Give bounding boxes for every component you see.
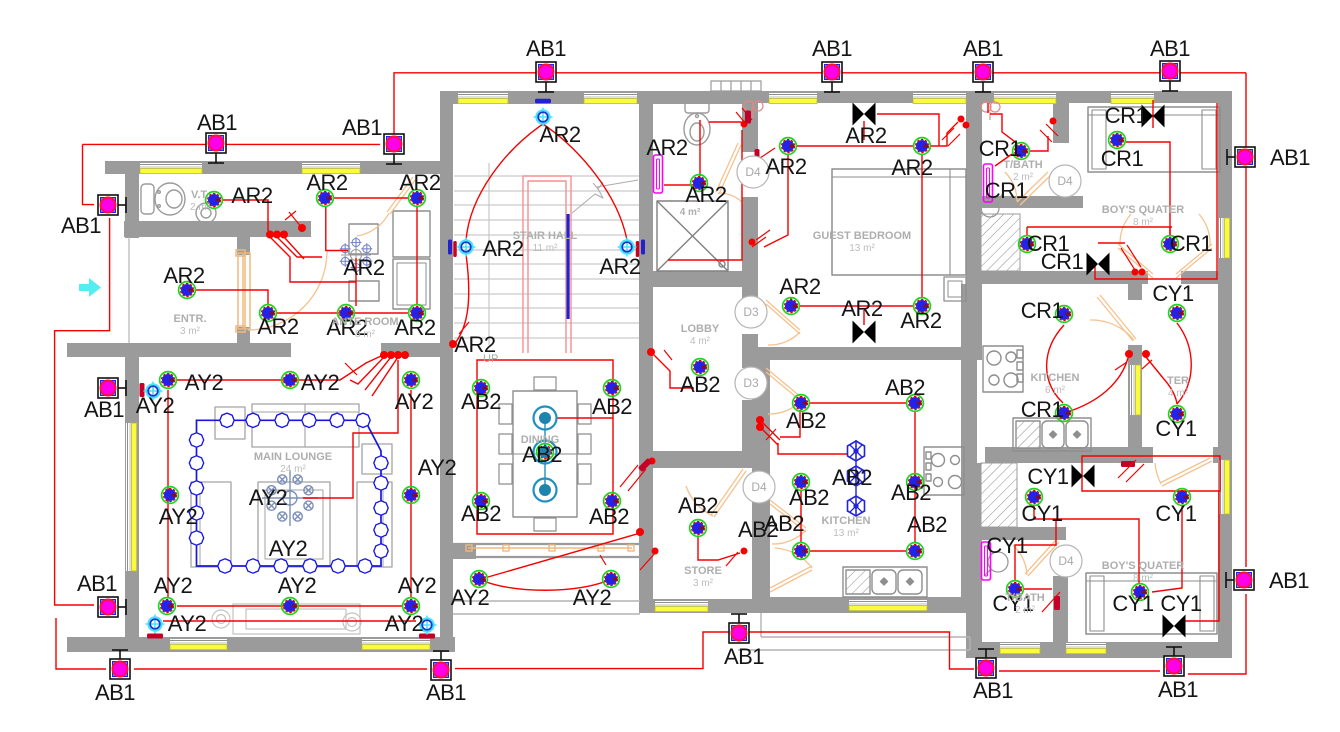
light AR2 V.T. xyxy=(206,192,223,209)
wire bath loop xyxy=(668,130,742,260)
svg-text:AB2: AB2 xyxy=(907,512,947,537)
svg-text:AR2: AR2 xyxy=(841,296,883,321)
bottom bed pillow right xyxy=(1200,576,1214,631)
door swing lobby lower xyxy=(768,400,802,414)
svg-text:AY2: AY2 xyxy=(398,573,437,598)
light AY2 porch east xyxy=(603,571,620,588)
door tag D4 T/BATH top xyxy=(1049,165,1081,197)
wire kitchen fan column xyxy=(855,440,857,516)
wire south chain east2 xyxy=(999,670,1160,672)
wire boys mid right stub xyxy=(1169,227,1171,236)
wall left of store xyxy=(639,449,653,613)
svg-text:6 m²: 6 m² xyxy=(1045,385,1066,396)
wire top AB1 chain xyxy=(394,73,1246,131)
light AY2 lounge NW xyxy=(160,372,177,389)
bottom boys bed xyxy=(1086,573,1217,634)
hatched duct bottom xyxy=(981,463,1017,527)
wire ter switch arc xyxy=(1146,357,1177,404)
svg-text:AR2: AR2 xyxy=(163,263,205,288)
door swing bottom T/BATH xyxy=(1013,545,1027,575)
junction V.T. wall 2 xyxy=(273,231,281,239)
svg-text:AB1: AB1 xyxy=(1270,145,1310,170)
junction ANTE south 2 xyxy=(387,351,395,359)
hatched duct top xyxy=(981,214,1020,271)
kitchen-right stove xyxy=(983,346,1023,392)
svg-text:CR1: CR1 xyxy=(1021,298,1064,323)
window stair hall north 1 xyxy=(458,93,508,104)
loop node 11 xyxy=(374,544,388,558)
wire bottom CY1 link xyxy=(1034,505,1139,583)
wall above bottom T/BATH xyxy=(966,527,1066,540)
svg-text:AY2: AY2 xyxy=(385,611,424,636)
svg-text:AB2: AB2 xyxy=(461,501,501,526)
room label ANTE ROOM xyxy=(331,316,398,340)
svg-text:AY2: AY2 xyxy=(249,485,288,510)
light AY2 lounge S xyxy=(282,598,299,615)
wall left of V.T. xyxy=(125,161,139,238)
guest bedside inner xyxy=(948,281,962,297)
wire boys mid lights xyxy=(1027,226,1172,228)
wire bottom boys loop xyxy=(1082,456,1220,491)
junction ANTE south 4 xyxy=(401,351,409,359)
door swing V.T. annex xyxy=(357,213,389,236)
centre kitchen stove xyxy=(924,447,964,495)
door tag D3 lobby lower xyxy=(735,367,767,399)
svg-text:AB1: AB1 xyxy=(812,36,852,61)
window boys quater east xyxy=(1219,218,1230,258)
svg-text:AY2: AY2 xyxy=(168,611,207,636)
wire east side drop lower xyxy=(1188,594,1246,674)
door swing bottom boys quater xyxy=(1155,463,1161,484)
loop node 16 xyxy=(246,559,260,573)
wire south chain west xyxy=(134,668,427,670)
svg-text:8 m²: 8 m² xyxy=(1133,217,1154,228)
svg-text:4 m²: 4 m² xyxy=(1168,388,1189,399)
wall entr/ante upper stub xyxy=(237,237,250,255)
wire kitchen left drop xyxy=(800,491,802,542)
svg-text:8 m²: 8 m² xyxy=(1133,573,1154,584)
lantern AB1 west lower xyxy=(98,597,126,617)
junction store xyxy=(741,548,748,555)
svg-text:AB1: AB1 xyxy=(973,678,1013,703)
wall kitchen/ter divider xyxy=(1128,345,1142,463)
room label KITCHEN xyxy=(1031,372,1080,396)
ANTE cupboard upper xyxy=(349,224,378,254)
wire dining light link xyxy=(556,417,613,419)
dining chair 8 xyxy=(578,464,591,484)
wall lobby right lower xyxy=(742,400,758,468)
svg-text:CY1: CY1 xyxy=(1155,501,1197,526)
wire ter lights arc xyxy=(1177,323,1191,404)
svg-text:AB2: AB2 xyxy=(832,465,872,490)
boys bed pillow right xyxy=(1202,110,1216,169)
junction boys hook 2 xyxy=(1139,269,1146,276)
wire ANTE bottom lights xyxy=(276,312,409,314)
light AY2 porch west xyxy=(471,571,488,588)
svg-text:DINING: DINING xyxy=(521,434,560,446)
ENTR double door leaves xyxy=(236,250,250,332)
wire hook guest left xyxy=(752,230,770,247)
svg-text:AR2: AR2 xyxy=(891,155,933,180)
svg-text:GUEST BEDROOM: GUEST BEDROOM xyxy=(813,230,911,242)
wire lounge sw stub nw xyxy=(152,383,154,399)
light AR2 guest SE xyxy=(914,298,931,315)
loop node 4 xyxy=(302,413,316,427)
door swing boys quater left xyxy=(1120,214,1131,246)
boys quater bed xyxy=(1088,107,1220,172)
junction kitchen west 1 xyxy=(756,416,764,424)
wall left of main lounge xyxy=(125,356,139,652)
pendant light dining 2 xyxy=(534,441,557,464)
wall bottom of right block xyxy=(966,642,1232,658)
T/BATH wash basin xyxy=(981,193,1004,217)
loop node 13 xyxy=(331,559,345,573)
junction kitchen west 2 xyxy=(756,423,764,431)
window lounge south 1 xyxy=(170,639,227,650)
door leaf kitchen entry xyxy=(770,500,806,532)
wall right of bottom T/BATH xyxy=(1053,576,1068,645)
dining south partition upper line xyxy=(453,543,640,545)
wire guest BL stub xyxy=(790,298,792,306)
svg-text:ANTE ROOM: ANTE ROOM xyxy=(331,316,398,328)
dining chair 3 xyxy=(499,404,512,424)
svg-text:CR1: CR1 xyxy=(1170,231,1213,256)
fan kitchen 1 xyxy=(848,441,865,461)
window kitchen south xyxy=(849,600,927,611)
wall below boys quater top west xyxy=(966,271,1148,284)
svg-text:AB2: AB2 xyxy=(891,480,931,505)
wire lounge bottom row xyxy=(177,605,402,607)
light AY2 lounge SE xyxy=(403,598,420,615)
door swing boys quater right xyxy=(1199,214,1210,246)
lounge tv unit xyxy=(212,604,361,634)
wire T/BATH switch link xyxy=(995,154,1012,166)
wall right of T/BATH top xyxy=(1053,103,1069,143)
svg-text:MAIN LOUNGE: MAIN LOUNGE xyxy=(254,451,332,463)
ANTE ceiling fan xyxy=(340,237,373,273)
fan bottom boys north xyxy=(1072,465,1095,488)
wire tick stair xyxy=(459,322,469,334)
wire lounge fan feed xyxy=(303,360,398,498)
lantern AB1 east lower xyxy=(1226,570,1254,590)
svg-text:CR1: CR1 xyxy=(1021,397,1064,422)
svg-text:AB1: AB1 xyxy=(1269,568,1309,593)
wall below T/BATH top xyxy=(966,196,1083,208)
wire guest fan link xyxy=(877,114,939,146)
svg-text:AB1: AB1 xyxy=(77,571,117,596)
wall below boys quater top east xyxy=(1181,271,1232,284)
V.T. wash basin xyxy=(196,196,222,223)
junction V.T. wall 3 xyxy=(280,231,288,239)
door tag D4 store xyxy=(743,471,775,503)
wall right of bath upper xyxy=(742,91,758,152)
dining chair 5 xyxy=(499,464,512,484)
room label STAIR HALL xyxy=(513,230,578,254)
wall top of stair hall and bath xyxy=(440,91,742,104)
wire lobby feed xyxy=(652,353,694,388)
boys bed pillow left xyxy=(1092,110,1106,169)
loop node 12 xyxy=(358,559,372,573)
svg-text:STAIR HALL: STAIR HALL xyxy=(513,230,578,242)
wire hook bath wall xyxy=(736,108,752,124)
light AR2 ANTE NE xyxy=(409,190,426,207)
wire ENTR light feed xyxy=(196,290,268,305)
svg-text:CR1: CR1 xyxy=(1101,146,1144,171)
wire boys east drop xyxy=(1095,103,1217,279)
window lounge south 2 xyxy=(362,639,430,650)
bath toilet xyxy=(684,100,710,145)
svg-text:3 m²: 3 m² xyxy=(180,326,201,337)
svg-text:AY2: AY2 xyxy=(418,455,457,480)
loop node 1 xyxy=(220,413,234,427)
wire top-left AB1 chain xyxy=(83,143,381,145)
svg-text:13 m²: 13 m² xyxy=(849,243,875,254)
wire annex switch drop 3 xyxy=(284,237,304,259)
wire hook dining east xyxy=(620,465,646,491)
wall top of boys quater xyxy=(966,91,1232,103)
light AB2 dining NE xyxy=(604,380,621,397)
svg-text:AR2: AR2 xyxy=(765,154,807,179)
door swing store xyxy=(686,486,713,516)
svg-text:AR2: AR2 xyxy=(343,255,385,280)
guest bedside table xyxy=(944,277,966,301)
room label BOY'S QUATER xyxy=(1102,204,1185,228)
junction porch east xyxy=(652,548,659,555)
wire store light feed xyxy=(698,537,740,560)
room label bath area xyxy=(680,207,701,218)
svg-text:AB1: AB1 xyxy=(1158,677,1198,702)
svg-text:AY2: AY2 xyxy=(159,504,198,529)
light AY2 lounge E xyxy=(403,487,420,504)
svg-text:AB1: AB1 xyxy=(963,36,1003,61)
wire guest left top link xyxy=(757,148,775,160)
lantern AB1 top annex west xyxy=(206,133,226,163)
ANTE fridge upper xyxy=(393,211,430,257)
loop node 8 xyxy=(374,476,388,490)
door leaf bottom T/BATH xyxy=(1025,540,1059,576)
switch plate dining east xyxy=(638,458,652,472)
bottom bed pillow left xyxy=(1090,576,1104,631)
wire stair arc west xyxy=(466,124,543,240)
lantern AB1 east upper xyxy=(1227,147,1255,167)
wire west chain mid xyxy=(55,218,110,605)
pendant light dining 1 xyxy=(534,407,557,430)
lounge side table left xyxy=(215,407,245,439)
guest bed head line xyxy=(832,176,966,178)
wire dining light column xyxy=(544,418,546,490)
V.T. toilet xyxy=(141,183,185,215)
wire porch riser xyxy=(488,534,637,577)
svg-text:CR1: CR1 xyxy=(1041,249,1084,274)
svg-text:AB2: AB2 xyxy=(592,394,632,419)
svg-text:24 m²: 24 m² xyxy=(280,464,306,475)
connection unit T/BATH top xyxy=(984,164,993,202)
wire V.T. light feed xyxy=(222,200,268,231)
switch plate bath east xyxy=(745,111,751,124)
svg-text:AR2: AR2 xyxy=(306,170,348,195)
junction lobby xyxy=(647,348,655,356)
door leaf kitchen south xyxy=(770,566,812,592)
wire ANTE left drop xyxy=(326,206,348,251)
wall top of V.T. annex xyxy=(105,161,447,174)
light AB2 dining centre xyxy=(537,444,554,461)
wall right exterior xyxy=(1218,91,1232,658)
wire lounge top row xyxy=(177,356,381,380)
dining chair 4 xyxy=(499,434,512,454)
svg-text:AY2: AY2 xyxy=(269,536,308,561)
wire tick ANTE bundle xyxy=(345,363,357,375)
stair landing line xyxy=(488,163,490,345)
junction ANTE south 1 xyxy=(380,351,388,359)
bath vent circles xyxy=(744,101,763,118)
wall below centre kitchen xyxy=(752,597,977,613)
wire guest bottom lights xyxy=(800,305,913,307)
door leaf lobby lower xyxy=(766,368,802,402)
window ANTE north xyxy=(302,163,360,174)
wall below ANTE right part xyxy=(381,343,453,357)
lantern AB1 south 1 xyxy=(110,650,130,679)
light CY1 ter S xyxy=(1169,406,1186,423)
wire east side drop upper xyxy=(1245,73,1247,567)
room label T/BATH xyxy=(1003,159,1043,183)
svg-text:AB2: AB2 xyxy=(789,485,829,510)
switch plate lounge SE xyxy=(419,634,435,639)
wire bottom CY1 east drop xyxy=(1152,505,1182,592)
svg-text:4 m²: 4 m² xyxy=(680,207,701,218)
lounge sofa top divider xyxy=(304,404,306,447)
light CY1 bottom NW xyxy=(1026,489,1043,506)
switch plate lounge NW xyxy=(140,383,145,397)
junction guest left xyxy=(749,239,756,246)
door swing bath xyxy=(718,193,743,203)
wire lounge west column xyxy=(167,390,169,597)
light AR2 bath xyxy=(691,175,708,192)
svg-text:AR2: AR2 xyxy=(399,170,441,195)
light CY1 bottom T/BATH xyxy=(1007,581,1024,598)
wall below store xyxy=(639,599,770,613)
wall left of dining xyxy=(440,357,453,652)
door leaf lobby upper xyxy=(766,300,800,334)
svg-text:AY2: AY2 xyxy=(395,389,434,414)
junction bath wall xyxy=(741,121,748,128)
lantern AB1 top guest west xyxy=(822,62,842,92)
junction kitchen-right switch 1 xyxy=(1125,350,1133,358)
svg-text:11 m²: 11 m² xyxy=(533,243,558,254)
wall right of centre kitchen xyxy=(961,284,977,613)
svg-text:CY1: CY1 xyxy=(986,533,1028,558)
svg-text:AR2: AR2 xyxy=(231,183,273,208)
svg-text:UP: UP xyxy=(483,353,498,365)
wall entr/ante lower stub xyxy=(237,327,250,345)
wire guest right drop xyxy=(921,155,923,298)
room label ENTR. xyxy=(174,313,207,337)
svg-text:AB1: AB1 xyxy=(342,115,382,140)
light AY2 lounge W xyxy=(162,487,179,504)
entrance arrow xyxy=(79,278,101,297)
loop node 14 xyxy=(303,559,317,573)
svg-text:AR2: AR2 xyxy=(257,314,299,339)
svg-text:V.T.: V.T. xyxy=(191,189,209,201)
wall below ENTR xyxy=(67,343,291,357)
loop node 9 xyxy=(374,501,388,515)
wall below kitchen right east xyxy=(1213,447,1232,463)
wall left of bottom-right block xyxy=(966,463,982,658)
porch line upper xyxy=(453,600,640,602)
light AB2 kitchen SE xyxy=(907,543,924,560)
window stair hall north 2 xyxy=(584,93,637,104)
light CR1 kitchen-right S xyxy=(1056,405,1073,422)
svg-text:CY1: CY1 xyxy=(1021,501,1063,526)
switch plate bottom T/BATH xyxy=(1054,596,1060,610)
wire hook guest NE xyxy=(942,128,960,146)
light AB2 kitchen SW xyxy=(793,543,810,560)
wall right of guest bedroom xyxy=(966,91,982,360)
switch plate stair west red xyxy=(453,241,457,257)
door swing lobby upper xyxy=(768,332,800,345)
dining table divider xyxy=(513,453,577,455)
light CY1 bottom NE xyxy=(1174,489,1191,506)
svg-text:CY1: CY1 xyxy=(1160,591,1202,616)
kitchen porch line lower xyxy=(738,649,970,651)
lounge sofa left xyxy=(191,482,231,567)
svg-text:STORE: STORE xyxy=(684,565,722,577)
wire bottom T/BATH link xyxy=(1024,588,1052,590)
door leaf kitchen-right xyxy=(1097,295,1136,341)
wire ANTE-to-lounge 3 xyxy=(372,357,398,396)
wire kitchen bottom lights xyxy=(810,550,906,552)
wall right of stair hall xyxy=(639,91,653,372)
svg-text:AB1: AB1 xyxy=(84,397,124,422)
svg-text:AB1: AB1 xyxy=(426,680,466,705)
wire ANTE-to-lounge 1 xyxy=(350,357,384,384)
svg-text:AY2: AY2 xyxy=(185,370,224,395)
wall below kitchen right xyxy=(985,447,1153,463)
lounge ceiling fan xyxy=(262,470,318,526)
wire boys mid left stub xyxy=(1026,227,1028,236)
light AR2 guest NW xyxy=(780,138,797,155)
door tag D3 lobby upper xyxy=(735,296,767,328)
dining chair 7 xyxy=(578,434,591,454)
door leaf store xyxy=(711,469,746,517)
svg-text:2 m²: 2 m² xyxy=(1013,172,1034,183)
door tag D4 bottom T/BATH xyxy=(1050,545,1082,577)
light AR2 ANTE SW xyxy=(260,305,277,322)
ANTE fridge lower xyxy=(393,259,430,309)
light AB2 kitchen NW xyxy=(793,395,810,412)
wall right of porch xyxy=(639,543,653,599)
dining table xyxy=(513,391,577,517)
wall below guest bedroom xyxy=(742,347,982,360)
door swing T/BATH top xyxy=(1005,172,1017,201)
svg-text:T/BATH: T/BATH xyxy=(1003,159,1043,171)
loop node 20 xyxy=(189,481,203,495)
kitchen porch line upper xyxy=(761,636,970,638)
svg-text:2 m²: 2 m² xyxy=(1015,605,1036,616)
loop node 5 xyxy=(330,413,344,427)
svg-text:AB2: AB2 xyxy=(678,493,718,518)
wire bath light to switch xyxy=(664,184,692,186)
loop node 7 xyxy=(374,456,388,470)
svg-text:AY2: AY2 xyxy=(301,370,340,395)
wire tick kitchen west xyxy=(766,429,776,440)
room label T/BATH xyxy=(1005,592,1045,616)
wire boys fan link xyxy=(1098,242,1125,244)
junction V.T. wall 1 xyxy=(266,231,274,239)
svg-text:T/BATH: T/BATH xyxy=(1005,592,1045,604)
window kitchen/ter divider xyxy=(1130,365,1141,415)
lantern AB1 south 5 xyxy=(1164,647,1184,676)
junction guest NE 1 xyxy=(958,116,965,123)
